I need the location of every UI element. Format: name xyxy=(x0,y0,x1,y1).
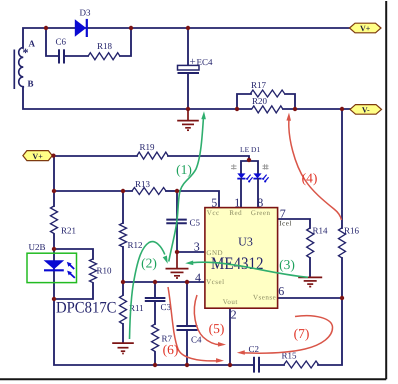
capacitor C3 xyxy=(145,297,166,299)
wire C6/R18 branch left xyxy=(46,28,58,56)
svg-text:(6): (6) xyxy=(163,342,179,357)
wire pin6 Vsense xyxy=(278,297,342,299)
resistor R15 xyxy=(284,361,319,368)
svg-text:U2B: U2B xyxy=(29,242,46,252)
svg-text:A: A xyxy=(29,39,36,49)
wire top bus V+ rail xyxy=(23,28,350,48)
wire R17 loop xyxy=(237,94,251,109)
svg-text:V+: V+ xyxy=(32,152,43,161)
annotation arrow (5) xyxy=(194,295,219,345)
junction U2B bottom xyxy=(52,297,56,301)
svg-text:V-: V- xyxy=(362,106,370,115)
capacitor EC4 plates xyxy=(178,65,200,70)
resistor R14 xyxy=(307,228,314,258)
svg-text:DPC817C: DPC817C xyxy=(56,300,117,317)
svg-text:8: 8 xyxy=(257,195,263,209)
wire pin2 Vout xyxy=(229,308,231,365)
wire R17 loop right xyxy=(285,94,295,109)
wire C3 top xyxy=(154,282,156,297)
wire EC4 top xyxy=(187,28,189,65)
svg-text:Green: Green xyxy=(251,209,271,217)
junction GND node xyxy=(175,250,179,254)
svg-text:R17: R17 xyxy=(251,80,267,90)
resistor R11 xyxy=(120,295,127,324)
wire EC4 bottom xyxy=(187,73,189,109)
label red char xyxy=(231,164,237,169)
wire U2B LED vertical xyxy=(53,249,55,299)
wire R19 to LED D1 xyxy=(168,156,249,161)
wire V+ left to R19 rail xyxy=(52,155,137,157)
svg-text:7: 7 xyxy=(280,207,286,221)
resistor R21 xyxy=(51,206,58,234)
resistor R20 xyxy=(252,106,284,113)
wire bottom bus right corner xyxy=(318,258,342,365)
resistor R17 xyxy=(251,90,285,97)
svg-text:LE D1: LE D1 xyxy=(240,145,260,154)
svg-text:(2): (2) xyxy=(141,256,157,271)
svg-text:(1): (1) xyxy=(176,162,192,177)
label green char xyxy=(263,164,269,169)
wire R21 to U2B xyxy=(53,234,55,249)
svg-text:V+: V+ xyxy=(360,24,371,33)
svg-text:C6: C6 xyxy=(56,36,67,46)
svg-text:R14: R14 xyxy=(313,226,329,236)
junction R17 right xyxy=(293,107,297,111)
junction V+ R13 xyxy=(52,189,56,193)
port V+ top right xyxy=(350,23,382,33)
svg-text:R10: R10 xyxy=(97,266,113,276)
wire V- bottom-left rail xyxy=(23,88,251,109)
svg-text:R21: R21 xyxy=(61,226,76,236)
wire R13 rail xyxy=(54,190,132,192)
wire C6 to R18 xyxy=(64,55,88,57)
wire bottom bus C2 to R15 xyxy=(259,364,284,366)
wire C5 top xyxy=(176,191,178,219)
junction pin2 bottom xyxy=(228,363,232,367)
wire R12 bottom xyxy=(122,247,124,282)
resistor R10 xyxy=(90,259,97,283)
diode D3 xyxy=(75,19,86,37)
junction U2B top xyxy=(52,247,56,251)
svg-text:Red: Red xyxy=(229,209,242,217)
svg-text:Vout: Vout xyxy=(223,298,238,306)
svg-text:Vcsel: Vcsel xyxy=(206,278,224,286)
junction EC4 top xyxy=(186,26,190,30)
svg-text:R19: R19 xyxy=(140,142,156,152)
resistor R13 xyxy=(132,188,166,195)
optocoupler light arrow 2 xyxy=(70,273,75,278)
wire R10 branch xyxy=(54,249,93,259)
junction C5 top xyxy=(175,189,179,193)
junction R11 top xyxy=(121,280,125,284)
inductor A-B core bar xyxy=(13,50,15,90)
junction V- R16 xyxy=(340,107,344,111)
svg-text:3: 3 xyxy=(194,240,200,254)
svg-text:C5: C5 xyxy=(190,218,201,228)
optocoupler LED xyxy=(44,260,65,269)
wire V+ vertical upper xyxy=(53,156,55,206)
wire R12 top xyxy=(122,191,124,223)
wire R7 to bottom bus xyxy=(154,352,156,365)
LED D1 anode wires xyxy=(240,179,242,208)
wire R11 top xyxy=(122,282,124,295)
wire C4 top xyxy=(186,282,188,326)
svg-text:R20: R20 xyxy=(252,96,268,106)
junction C3 top xyxy=(153,280,157,284)
wire C4 to bottom bus xyxy=(186,330,188,365)
svg-text:R18: R18 xyxy=(97,41,113,51)
svg-text:6: 6 xyxy=(278,284,284,298)
junction LED D1 top xyxy=(247,158,251,162)
annotation arrow (2) xyxy=(130,242,165,339)
ground R14 xyxy=(298,276,322,278)
svg-text:R13: R13 xyxy=(135,179,151,189)
port V+ left xyxy=(23,151,52,161)
optocoupler U2B box xyxy=(27,253,77,282)
capacitor C6 xyxy=(58,49,60,63)
annotation arrow (1) xyxy=(169,117,204,262)
svg-text:EC4: EC4 xyxy=(197,57,214,67)
wire U2B down to bottom bus xyxy=(54,299,254,365)
junction R17 left xyxy=(235,107,239,111)
junction D3 cathode xyxy=(129,26,133,30)
junction R12 top xyxy=(121,189,125,193)
junction R7 bottom xyxy=(153,363,157,367)
svg-text:2: 2 xyxy=(231,308,237,322)
svg-text:D3: D3 xyxy=(80,7,91,17)
wire V- rail right segment xyxy=(283,108,351,110)
resistor R12 xyxy=(120,223,127,247)
optocoupler light arrow 1 xyxy=(69,264,74,269)
ground EC4 xyxy=(187,109,189,120)
annotation arrow (6) xyxy=(168,287,217,361)
port V- right xyxy=(350,105,382,115)
resistor R16 xyxy=(339,228,346,258)
junction EC4 bottom xyxy=(186,107,190,111)
junction C4 top xyxy=(185,280,189,284)
junction C4 bottom xyxy=(185,363,189,367)
svg-text:(7): (7) xyxy=(294,326,310,341)
wire R13 to C5 node xyxy=(166,190,177,192)
annotation arrow (4) xyxy=(289,119,342,220)
op-amp U3 body xyxy=(205,208,278,309)
resistor R18 xyxy=(88,53,120,60)
LED D1 top bar xyxy=(241,161,258,174)
svg-text:Vsense: Vsense xyxy=(253,294,276,302)
LED D1 red diode xyxy=(237,173,245,178)
wire pin5 from R13 node xyxy=(177,191,219,208)
capacitor C5 xyxy=(166,219,187,221)
svg-text:4: 4 xyxy=(195,271,201,285)
svg-text:1: 1 xyxy=(234,195,240,209)
wire pin7 Icel xyxy=(278,219,310,228)
svg-text:R16: R16 xyxy=(344,226,360,236)
wire C3 to R7 xyxy=(154,301,156,324)
capacitor C4 xyxy=(177,325,198,327)
wire pin4 bus xyxy=(123,281,205,283)
svg-text:U3: U3 xyxy=(238,234,253,248)
capacitor C2 xyxy=(253,357,255,373)
LED D1 red light arrows xyxy=(248,175,251,179)
LED D1 green light arrows xyxy=(264,175,267,179)
wire R16 top vertical xyxy=(341,109,343,228)
svg-text:B: B xyxy=(28,79,34,89)
svg-text:GND: GND xyxy=(206,249,223,257)
svg-text:(4): (4) xyxy=(302,170,318,185)
svg-text:R12: R12 xyxy=(128,240,143,250)
junction top C6 branch xyxy=(44,26,48,30)
wire R14 to ground xyxy=(309,258,311,277)
wire R10 bottom xyxy=(54,283,93,299)
svg-text:*: * xyxy=(23,46,29,60)
annotation arrow (7) xyxy=(244,316,333,354)
wire C5 bottom to GND node xyxy=(176,223,178,252)
annotation arrow (3) xyxy=(192,262,308,277)
svg-text:5: 5 xyxy=(211,195,217,209)
ground R11 xyxy=(112,342,134,344)
resistor R19 xyxy=(137,152,168,159)
resistor R7 xyxy=(152,324,159,352)
junction pin6 R16 xyxy=(340,296,344,300)
ground chip GND xyxy=(176,252,178,268)
svg-text:(5): (5) xyxy=(209,321,225,336)
svg-text:C4: C4 xyxy=(191,335,202,345)
wire R11 to ground xyxy=(122,324,124,343)
LED D1 green diode xyxy=(253,173,261,178)
wire R18 up to bus xyxy=(120,28,131,56)
svg-text:+: + xyxy=(190,56,196,68)
wire pin3 GND xyxy=(177,251,205,253)
inductor coil xyxy=(19,48,24,88)
svg-text:Vcc: Vcc xyxy=(207,209,220,217)
svg-text:(3): (3) xyxy=(279,257,295,272)
